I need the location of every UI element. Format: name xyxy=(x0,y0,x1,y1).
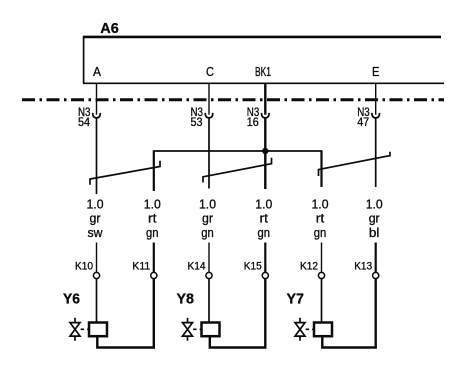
svg-text:53: 53 xyxy=(191,117,203,129)
wire from contact into solenoid Y6 xyxy=(96,279,98,323)
contact circle K10 xyxy=(93,272,99,278)
wire label 1.0 gr bl xyxy=(366,198,383,240)
svg-text:gn: gn xyxy=(258,226,271,240)
svg-text:K15: K15 xyxy=(244,261,262,273)
svg-text:rt: rt xyxy=(260,212,269,226)
svg-text:gn: gn xyxy=(314,226,327,240)
connector socket on wire BK1 xyxy=(262,113,270,118)
plug connection diagonal 2 xyxy=(203,158,272,183)
contact circle K13 xyxy=(373,272,379,278)
wire down to K11 xyxy=(153,150,155,191)
svg-text:bl: bl xyxy=(369,226,380,240)
wire from contact into solenoid Y7 xyxy=(321,279,323,323)
svg-text:1.0: 1.0 xyxy=(312,198,329,212)
svg-text:Y8: Y8 xyxy=(177,291,195,308)
svg-text:A6: A6 xyxy=(100,20,119,37)
svg-text:47: 47 xyxy=(357,117,369,129)
wire from pin A to connector xyxy=(96,83,98,114)
svg-text:BK1: BK1 xyxy=(255,65,271,79)
contact circle K14 xyxy=(206,272,212,278)
svg-text:rt: rt xyxy=(148,212,157,226)
solenoid coil Y7 xyxy=(314,323,332,337)
junction dot on BK1 wire xyxy=(262,148,268,154)
wire label 1.0 rt gn xyxy=(312,198,329,240)
connector socket on wire E xyxy=(372,113,380,118)
contact circle K15 xyxy=(262,272,268,278)
contact circle K11 xyxy=(151,272,157,278)
return wire Y6 to contact xyxy=(97,279,154,348)
actuation link (dashed) Y6 xyxy=(81,328,89,330)
wire BK1 continued xyxy=(264,117,266,189)
actuation link (dashed) Y7 xyxy=(306,328,314,330)
plug connection diagonal 1 xyxy=(90,161,160,185)
solenoid coil Y8 xyxy=(202,323,220,337)
valve symbol Y6 xyxy=(70,318,80,341)
label N3 54 xyxy=(78,107,91,129)
wire stub above K12 xyxy=(321,243,323,273)
valve symbol Y7 xyxy=(295,318,305,341)
actuation link (dashed) Y8 xyxy=(193,328,201,330)
svg-text:gr: gr xyxy=(90,212,101,226)
svg-text:1.0: 1.0 xyxy=(199,198,216,212)
svg-text:1.0: 1.0 xyxy=(87,198,104,212)
wire label 1.0 gr gn xyxy=(199,198,216,240)
distribution wire from BK1 node xyxy=(154,150,322,152)
svg-text:gn: gn xyxy=(201,226,214,240)
wire E continued xyxy=(375,117,377,187)
valve symbol Y8 xyxy=(183,318,193,341)
wire from pin C to connector xyxy=(208,83,210,114)
wire label 1.0 gr sw xyxy=(87,198,104,240)
control unit A6 (box outline) xyxy=(83,36,444,83)
return wire Y8 to contact xyxy=(210,279,265,348)
plug connection diagonal 3 xyxy=(319,152,391,176)
wire A continued xyxy=(96,117,98,194)
connector socket on wire A xyxy=(93,113,101,118)
wire stub above K14 xyxy=(208,243,210,273)
wire C continued xyxy=(208,117,210,188)
svg-text:sw: sw xyxy=(88,226,104,240)
wire stub above K10 xyxy=(96,243,98,273)
svg-text:K11: K11 xyxy=(132,261,150,273)
svg-text:54: 54 xyxy=(78,117,91,129)
svg-text:1.0: 1.0 xyxy=(255,198,272,212)
contact circle K12 xyxy=(318,272,324,278)
wire stub above K15 xyxy=(264,243,266,273)
wire from pin BK1 to connector xyxy=(264,83,266,114)
svg-text:E: E xyxy=(372,65,380,79)
svg-text:K10: K10 xyxy=(75,261,93,273)
svg-text:rt: rt xyxy=(316,212,325,226)
return wire Y7 to contact xyxy=(322,279,375,348)
wire label 1.0 rt gn xyxy=(144,198,161,240)
wire stub above K11 xyxy=(153,243,155,273)
wire from contact into solenoid Y8 xyxy=(208,279,210,323)
connector socket on wire C xyxy=(205,113,213,118)
svg-text:gr: gr xyxy=(202,212,213,226)
wire label 1.0 rt gn xyxy=(255,198,272,240)
separation line (dash-dot) xyxy=(22,98,444,101)
svg-text:A: A xyxy=(93,65,102,79)
svg-text:gn: gn xyxy=(146,226,159,240)
svg-text:K13: K13 xyxy=(354,261,372,273)
wire down to K12 xyxy=(320,150,322,187)
svg-text:16: 16 xyxy=(247,117,259,129)
svg-text:1.0: 1.0 xyxy=(366,198,383,212)
svg-text:Y6: Y6 xyxy=(63,291,80,308)
svg-text:1.0: 1.0 xyxy=(144,198,161,212)
svg-text:gr: gr xyxy=(369,212,380,226)
svg-text:K14: K14 xyxy=(188,261,206,273)
solenoid coil Y6 xyxy=(89,323,107,337)
svg-text:C: C xyxy=(206,65,214,79)
svg-text:K12: K12 xyxy=(300,261,318,273)
svg-text:Y7: Y7 xyxy=(287,291,305,308)
wire from pin E to connector xyxy=(375,83,377,114)
wire stub above K13 xyxy=(375,243,377,273)
label N3 16 xyxy=(247,107,259,129)
label N3 47 xyxy=(357,107,370,129)
label N3 53 xyxy=(191,107,204,129)
